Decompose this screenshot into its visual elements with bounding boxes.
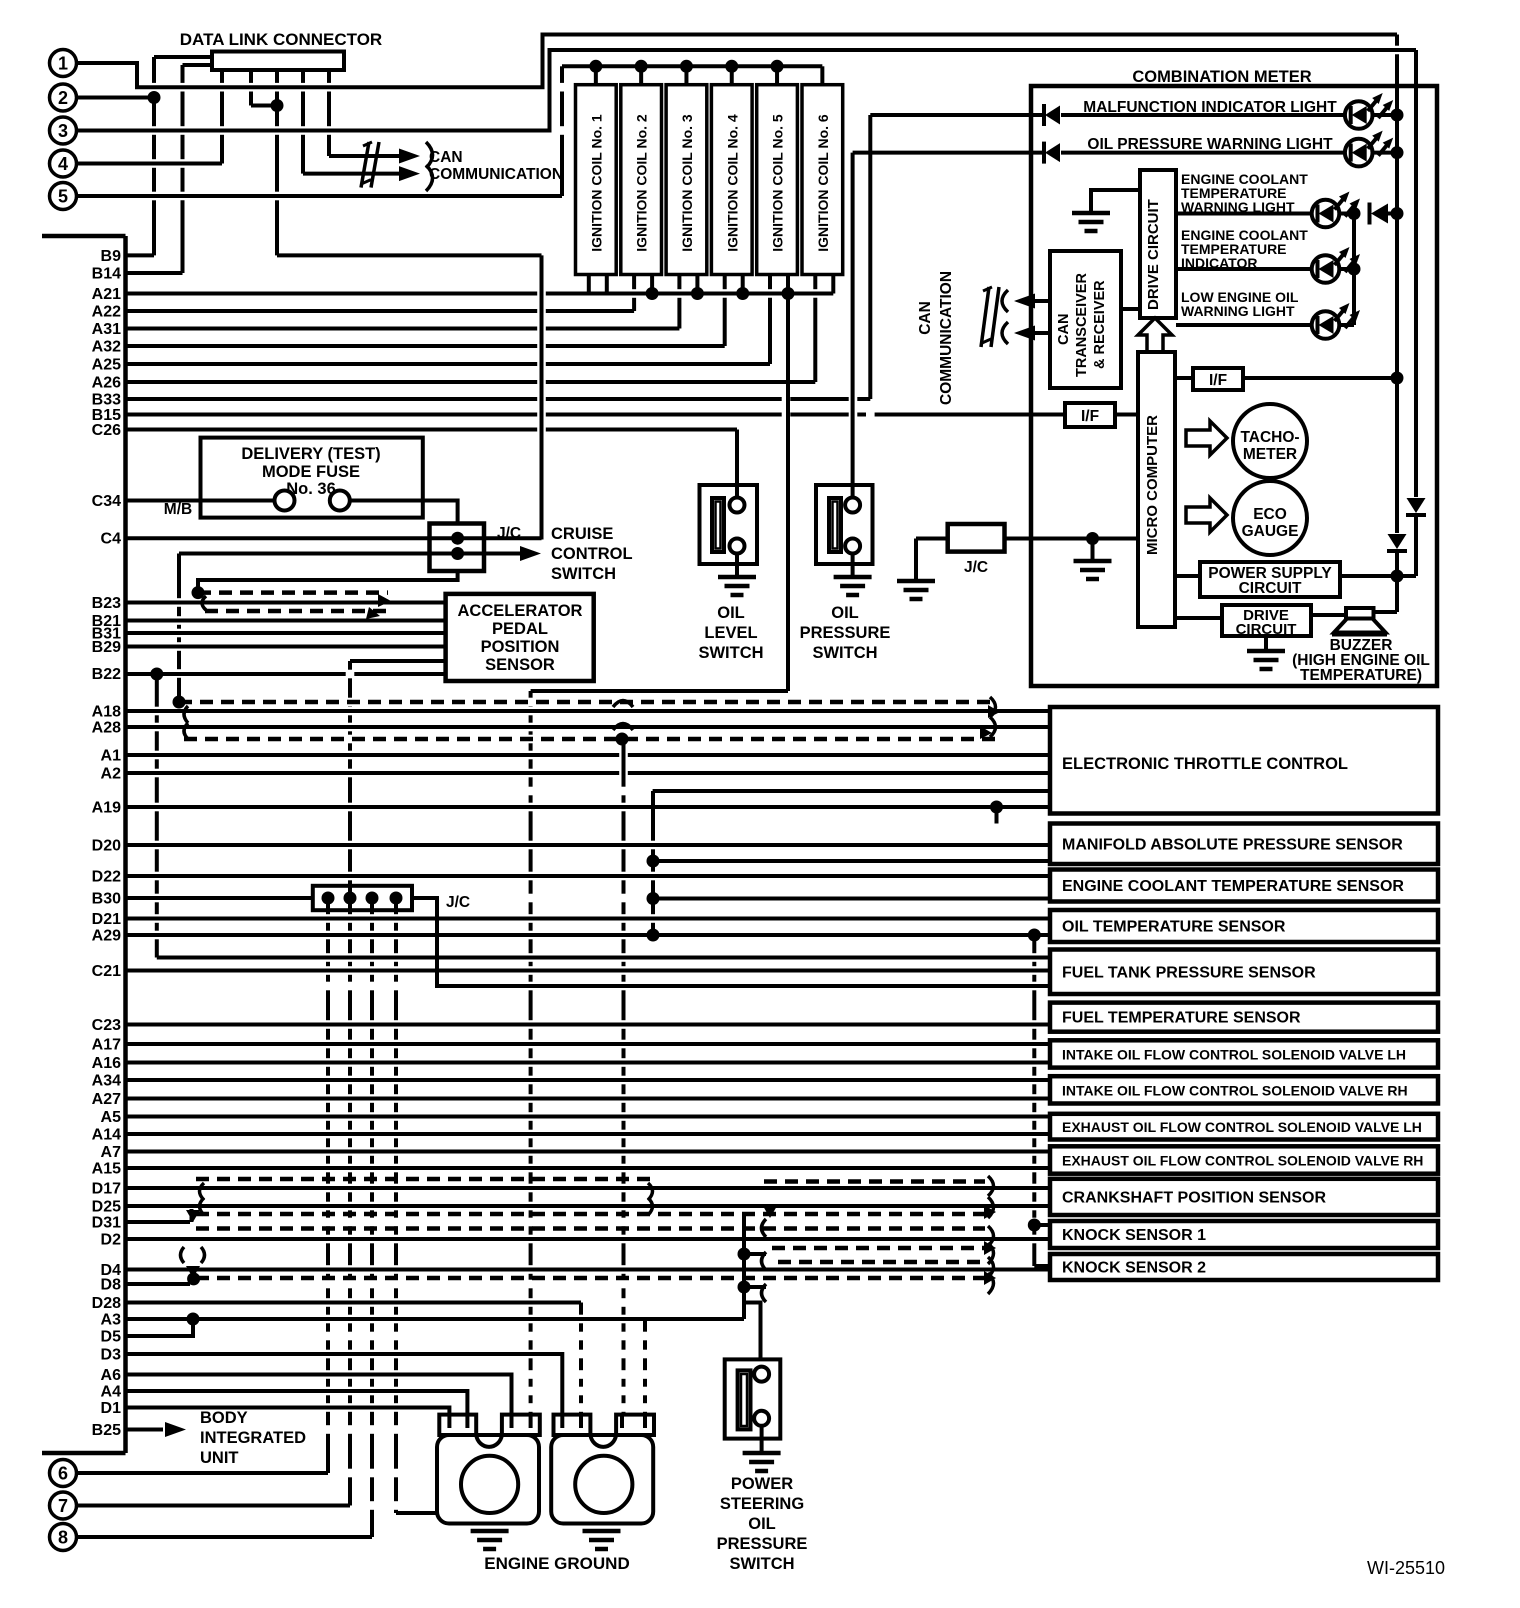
svg-text:B23: B23 bbox=[92, 595, 121, 612]
svg-text:EXHAUST OIL FLOW CONTROL SOLEN: EXHAUST OIL FLOW CONTROL SOLENOID VALVE … bbox=[1062, 1153, 1423, 1169]
svg-text:D5: D5 bbox=[101, 1329, 122, 1346]
svg-text:D1: D1 bbox=[101, 1400, 122, 1417]
svg-text:B9: B9 bbox=[101, 248, 122, 265]
svg-text:MALFUNCTION INDICATOR LIGHT: MALFUNCTION INDICATOR LIGHT bbox=[1083, 99, 1337, 116]
svg-text:A3: A3 bbox=[101, 1312, 122, 1329]
svg-text:KNOCK SENSOR 1: KNOCK SENSOR 1 bbox=[1062, 1227, 1206, 1244]
svg-text:A31: A31 bbox=[92, 321, 121, 338]
svg-text:A26: A26 bbox=[92, 375, 121, 392]
svg-text:I/F: I/F bbox=[1209, 372, 1227, 389]
svg-text:FUEL TEMPERATURE SENSOR: FUEL TEMPERATURE SENSOR bbox=[1062, 1010, 1301, 1027]
svg-text:INTAKE OIL FLOW CONTROL SOLENO: INTAKE OIL FLOW CONTROL SOLENOID VALVE L… bbox=[1062, 1046, 1406, 1062]
svg-text:B25: B25 bbox=[92, 1422, 121, 1439]
svg-text:PRESSURE: PRESSURE bbox=[717, 1535, 808, 1553]
svg-text:SWITCH: SWITCH bbox=[729, 1555, 794, 1573]
svg-text:I/F: I/F bbox=[1081, 408, 1099, 425]
svg-text:D21: D21 bbox=[92, 911, 121, 928]
svg-text:D25: D25 bbox=[92, 1199, 121, 1216]
svg-text:COMMUNICATION: COMMUNICATION bbox=[938, 271, 955, 405]
svg-text:A29: A29 bbox=[92, 928, 121, 945]
svg-text:UNIT: UNIT bbox=[200, 1449, 239, 1467]
svg-text:A2: A2 bbox=[101, 766, 122, 783]
svg-text:IGNITION COIL No. 3: IGNITION COIL No. 3 bbox=[679, 114, 695, 252]
svg-text:POSITION: POSITION bbox=[481, 638, 560, 656]
svg-text:A27: A27 bbox=[92, 1091, 121, 1108]
svg-text:4: 4 bbox=[58, 154, 68, 174]
svg-text:IGNITION COIL No. 2: IGNITION COIL No. 2 bbox=[634, 114, 650, 252]
svg-text:3: 3 bbox=[58, 121, 68, 141]
svg-text:WARNING LIGHT: WARNING LIGHT bbox=[1181, 303, 1295, 319]
svg-text:PRESSURE: PRESSURE bbox=[800, 624, 891, 642]
svg-text:COMBINATION METER: COMBINATION METER bbox=[1132, 68, 1311, 86]
svg-text:OIL: OIL bbox=[748, 1515, 776, 1533]
svg-text:GAUGE: GAUGE bbox=[1242, 523, 1299, 540]
svg-text:A32: A32 bbox=[92, 339, 121, 356]
svg-text:B30: B30 bbox=[92, 891, 121, 908]
svg-text:ECO: ECO bbox=[1253, 506, 1287, 523]
svg-text:SWITCH: SWITCH bbox=[551, 565, 616, 583]
svg-text:2: 2 bbox=[58, 88, 68, 108]
svg-text:D31: D31 bbox=[92, 1215, 121, 1232]
svg-text:SWITCH: SWITCH bbox=[698, 644, 763, 662]
svg-text:INTAKE OIL FLOW CONTROL SOLENO: INTAKE OIL FLOW CONTROL SOLENOID VALVE R… bbox=[1062, 1082, 1408, 1098]
svg-text:1: 1 bbox=[58, 54, 68, 74]
svg-text:CAN: CAN bbox=[429, 149, 463, 166]
svg-text:7: 7 bbox=[58, 1496, 68, 1516]
svg-text:A16: A16 bbox=[92, 1055, 121, 1072]
svg-text:D22: D22 bbox=[92, 869, 121, 886]
svg-text:8: 8 bbox=[58, 1528, 68, 1548]
svg-text:D17: D17 bbox=[92, 1181, 121, 1198]
svg-text:A1: A1 bbox=[101, 748, 122, 765]
svg-text:D28: D28 bbox=[92, 1295, 121, 1312]
svg-text:SENSOR: SENSOR bbox=[485, 656, 555, 674]
svg-text:A19: A19 bbox=[92, 800, 121, 817]
svg-text:INDICATOR: INDICATOR bbox=[1181, 255, 1257, 271]
svg-text:WI-25510: WI-25510 bbox=[1367, 1558, 1445, 1578]
svg-text:A34: A34 bbox=[92, 1073, 121, 1090]
svg-text:A21: A21 bbox=[92, 286, 121, 303]
svg-text:CONTROL: CONTROL bbox=[551, 545, 633, 563]
svg-text:ENGINE COOLANT TEMPERATURE SEN: ENGINE COOLANT TEMPERATURE SENSOR bbox=[1062, 878, 1404, 895]
svg-text:INTEGRATED: INTEGRATED bbox=[200, 1429, 306, 1447]
svg-text:B22: B22 bbox=[92, 666, 121, 683]
svg-text:IGNITION COIL No. 6: IGNITION COIL No. 6 bbox=[815, 114, 831, 252]
svg-text:A6: A6 bbox=[101, 1367, 122, 1384]
svg-text:A5: A5 bbox=[101, 1109, 122, 1126]
svg-text:B33: B33 bbox=[92, 392, 121, 409]
svg-text:OIL TEMPERATURE SENSOR: OIL TEMPERATURE SENSOR bbox=[1062, 919, 1286, 936]
svg-text:IGNITION COIL No. 1: IGNITION COIL No. 1 bbox=[588, 114, 604, 252]
svg-text:IGNITION COIL No. 4: IGNITION COIL No. 4 bbox=[724, 114, 740, 252]
svg-text:C34: C34 bbox=[92, 493, 121, 510]
svg-text:OIL: OIL bbox=[717, 604, 745, 622]
svg-text:TEMPERATURE): TEMPERATURE) bbox=[1300, 667, 1422, 684]
svg-text:EXHAUST OIL FLOW CONTROL SOLEN: EXHAUST OIL FLOW CONTROL SOLENOID VALVE … bbox=[1062, 1119, 1422, 1135]
svg-text:CAN: CAN bbox=[917, 301, 934, 335]
svg-text:6: 6 bbox=[58, 1464, 68, 1484]
svg-text:J/C: J/C bbox=[964, 559, 988, 576]
svg-text:C26: C26 bbox=[92, 422, 121, 439]
svg-text:B14: B14 bbox=[92, 266, 121, 283]
svg-text:COMMUNICATION: COMMUNICATION bbox=[429, 166, 563, 183]
svg-text:A7: A7 bbox=[101, 1144, 122, 1161]
svg-text:C23: C23 bbox=[92, 1017, 121, 1034]
svg-text:CRUISE: CRUISE bbox=[551, 525, 613, 543]
svg-text:A22: A22 bbox=[92, 304, 121, 321]
svg-text:A4: A4 bbox=[101, 1384, 122, 1401]
svg-text:C21: C21 bbox=[92, 963, 121, 980]
svg-text:J/C: J/C bbox=[446, 894, 470, 911]
svg-text:PEDAL: PEDAL bbox=[492, 620, 548, 638]
svg-text:OIL PRESSURE WARNING LIGHT: OIL PRESSURE WARNING LIGHT bbox=[1087, 136, 1333, 153]
svg-text:BODY: BODY bbox=[200, 1409, 248, 1427]
svg-text:M/B: M/B bbox=[164, 501, 192, 518]
svg-text:CIRCUIT: CIRCUIT bbox=[1239, 580, 1302, 597]
svg-text:ACCELERATOR: ACCELERATOR bbox=[458, 602, 583, 620]
svg-text:A15: A15 bbox=[92, 1161, 121, 1178]
svg-text:B29: B29 bbox=[92, 639, 121, 656]
svg-text:DRIVE CIRCUIT: DRIVE CIRCUIT bbox=[1145, 199, 1162, 310]
svg-text:C4: C4 bbox=[101, 531, 122, 548]
svg-text:IGNITION COIL No. 5: IGNITION COIL No. 5 bbox=[770, 114, 786, 252]
svg-text:WARNING LIGHT: WARNING LIGHT bbox=[1181, 199, 1295, 215]
svg-text:5: 5 bbox=[58, 187, 68, 207]
svg-text:MICRO COMPUTER: MICRO COMPUTER bbox=[1144, 415, 1161, 555]
svg-text:CIRCUIT: CIRCUIT bbox=[1236, 621, 1297, 638]
svg-text:A28: A28 bbox=[92, 720, 121, 737]
svg-text:TRANSCEIVER: TRANSCEIVER bbox=[1074, 273, 1090, 377]
svg-text:CAN: CAN bbox=[1056, 314, 1072, 345]
svg-text:CRANKSHAFT POSITION SENSOR: CRANKSHAFT POSITION SENSOR bbox=[1062, 1189, 1326, 1206]
svg-text:A18: A18 bbox=[92, 704, 121, 721]
svg-text:ELECTRONIC THROTTLE CONTROL: ELECTRONIC THROTTLE CONTROL bbox=[1062, 755, 1348, 773]
svg-text:METER: METER bbox=[1243, 446, 1297, 463]
svg-text:STEERING: STEERING bbox=[720, 1495, 804, 1513]
svg-text:OIL: OIL bbox=[831, 604, 859, 622]
svg-text:D3: D3 bbox=[101, 1347, 122, 1364]
svg-text:SWITCH: SWITCH bbox=[812, 644, 877, 662]
svg-text:DATA LINK CONNECTOR: DATA LINK CONNECTOR bbox=[180, 30, 382, 49]
svg-text:MANIFOLD ABSOLUTE PRESSURE SEN: MANIFOLD ABSOLUTE PRESSURE SENSOR bbox=[1062, 836, 1403, 853]
svg-text:LEVEL: LEVEL bbox=[704, 624, 757, 642]
svg-text:A17: A17 bbox=[92, 1037, 121, 1054]
svg-text:ENGINE GROUND: ENGINE GROUND bbox=[484, 1554, 629, 1573]
svg-text:D8: D8 bbox=[101, 1277, 122, 1294]
svg-text:KNOCK SENSOR 2: KNOCK SENSOR 2 bbox=[1062, 1260, 1206, 1277]
svg-text:& RECEIVER: & RECEIVER bbox=[1092, 280, 1108, 369]
svg-text:D20: D20 bbox=[92, 838, 121, 855]
svg-text:MODE FUSE: MODE FUSE bbox=[262, 463, 360, 481]
svg-text:DELIVERY (TEST): DELIVERY (TEST) bbox=[241, 445, 380, 463]
svg-text:A14: A14 bbox=[92, 1127, 121, 1144]
svg-text:POWER: POWER bbox=[731, 1475, 793, 1493]
svg-text:D2: D2 bbox=[101, 1232, 122, 1249]
svg-text:FUEL TANK PRESSURE SENSOR: FUEL TANK PRESSURE SENSOR bbox=[1062, 964, 1316, 981]
svg-text:TACHO-: TACHO- bbox=[1240, 429, 1299, 446]
svg-text:A25: A25 bbox=[92, 357, 121, 374]
